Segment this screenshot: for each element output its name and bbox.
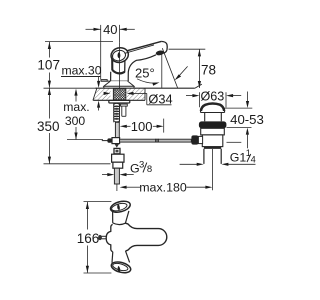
pipe down to rod fitting	[115, 122, 119, 137]
threaded coil column	[113, 103, 115, 122]
svg-text:100: 100	[131, 119, 153, 134]
horizontal rod	[120, 139, 192, 142]
bottom handle	[111, 252, 114, 263]
lift knob (top view)	[101, 235, 106, 237]
svg-text:max.: max.	[63, 100, 89, 114]
body sides	[110, 72, 112, 81]
svg-text:max.180: max.180	[139, 180, 187, 194]
svg-text:G1: G1	[230, 150, 247, 164]
neck	[204, 113, 206, 122]
dimension 78	[169, 49, 216, 88]
escutcheon base	[101, 80, 107, 82]
dimension diameter 63	[186, 90, 241, 108]
svg-text:max.30: max.30	[62, 64, 102, 78]
dome cap	[201, 104, 224, 111]
svg-text:40: 40	[103, 22, 117, 37]
flange body	[201, 128, 225, 135]
dimension 25 degrees	[135, 65, 188, 85]
supply shank below deck	[109, 88, 130, 137]
drain (pop-up waste) assembly	[191, 104, 226, 191]
dimension G3/8	[102, 159, 152, 176]
faucet side view	[101, 41, 167, 88]
dimension G1 1/4	[180, 148, 256, 166]
dimension 350	[37, 88, 110, 164]
guide bracket	[120, 104, 127, 106]
svg-text:3: 3	[139, 159, 144, 170]
lift-rod axis line	[100, 42, 102, 79]
spout	[127, 41, 161, 50]
svg-text:166: 166	[77, 231, 100, 246]
svg-text:4: 4	[251, 154, 256, 164]
dimension max.30	[61, 64, 102, 111]
svg-text:8: 8	[147, 164, 152, 175]
knob side walls	[111, 59, 113, 71]
knob top ellipse	[109, 46, 129, 64]
dimension 40-53	[224, 92, 264, 149]
svg-text:300: 300	[65, 114, 86, 128]
dimension 166	[77, 202, 112, 273]
G1 1/4 threaded pipe	[204, 147, 221, 149]
svg-text:350: 350	[37, 119, 60, 134]
svg-text:25°: 25°	[135, 65, 155, 80]
svg-text:Ø34: Ø34	[148, 91, 172, 106]
top handle	[112, 209, 114, 223]
union nut	[112, 154, 124, 162]
body axis line	[119, 42, 121, 88]
dimension 107	[37, 42, 113, 88]
rubber gasket	[199, 121, 227, 128]
svg-text:Ø63: Ø63	[200, 90, 224, 104]
faucet top view	[98, 199, 167, 274]
svg-text:40-53: 40-53	[230, 112, 264, 127]
pop-up rod assembly	[102, 138, 191, 191]
dimension 100	[120, 119, 164, 134]
dimension diameter 34	[104, 91, 173, 106]
rod connector	[191, 135, 198, 144]
G3/8 threaded end	[114, 168, 119, 184]
dimension max.180	[120, 180, 213, 194]
deck (counter top)	[44, 84, 202, 100]
small square valve	[114, 148, 120, 153]
taper below fitting	[114, 144, 119, 148]
dimension max.300	[63, 89, 103, 140]
dimension 40	[86, 22, 135, 42]
svg-text:107: 107	[37, 57, 60, 72]
spout angle reference lines	[161, 54, 163, 88]
svg-text:78: 78	[201, 63, 216, 78]
body and spout outline	[125, 223, 166, 251]
